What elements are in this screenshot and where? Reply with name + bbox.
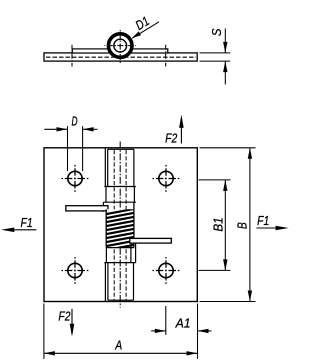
svg-text:A1: A1 bbox=[175, 316, 191, 330]
spring coil block bbox=[104, 202, 136, 250]
svg-text:B: B bbox=[236, 222, 250, 229]
hole centerline tick right bbox=[165, 45, 167, 67]
segment boundary bbox=[104, 262, 135, 264]
force F2 top bbox=[180, 118, 182, 144]
dimension B (plate height) bbox=[200, 148, 256, 302]
spring leg right (front view) bbox=[130, 238, 172, 243]
knuckle segment 6 (bottom) bbox=[105, 263, 133, 301]
knuckle: pin circle bbox=[114, 39, 127, 52]
leaf bar (plate thickness S) bbox=[44, 53, 197, 61]
hole top-right bbox=[153, 165, 180, 192]
knuckle center cross bbox=[105, 45, 137, 47]
svg-text:D1: D1 bbox=[133, 14, 152, 33]
svg-text:F1: F1 bbox=[21, 216, 33, 230]
hinge plate bbox=[44, 148, 197, 302]
hole centerline tick left bbox=[71, 45, 73, 67]
hole bottom-right bbox=[153, 257, 180, 284]
spring leg left (front view) bbox=[66, 206, 108, 211]
segment boundary bbox=[103, 201, 135, 203]
spring leg right (top view) bbox=[120, 49, 168, 53]
svg-text:F2: F2 bbox=[58, 309, 71, 323]
svg-text:F2: F2 bbox=[165, 132, 178, 146]
svg-text:S: S bbox=[209, 28, 224, 37]
segment boundary bbox=[104, 186, 136, 188]
pin hidden lines (dashed) bbox=[113, 150, 115, 301]
svg-text:A: A bbox=[114, 339, 122, 353]
force F1 right bbox=[257, 227, 282, 229]
knuckle: spring coil ring bbox=[107, 32, 134, 59]
spring leg left (top view) bbox=[72, 49, 120, 53]
hidden seam line in bar bbox=[46, 56, 196, 58]
force F1 left bbox=[11, 229, 36, 231]
dimension A (plate width) bbox=[44, 304, 197, 359]
svg-text:D: D bbox=[71, 115, 77, 129]
knuckle segment 2 bbox=[106, 187, 134, 203]
knuckle segment 1 (top) bbox=[105, 148, 134, 186]
svg-text:F1: F1 bbox=[257, 214, 269, 228]
left step bbox=[102, 202, 104, 212]
leader D1 bbox=[132, 22, 159, 38]
dimension B1 (hole spacing vertical) bbox=[199, 180, 231, 271]
knuckle segment 5 bbox=[106, 243, 135, 263]
force F2 bottom bbox=[71, 309, 73, 333]
dimension D (hole diameter) bbox=[44, 126, 97, 171]
dimension A1 (hole to edge) bbox=[151, 304, 211, 359]
knuckle centerline bbox=[119, 142, 121, 308]
hole top-left bbox=[62, 165, 89, 192]
dimension S bbox=[200, 52, 231, 54]
coil bottom boundary bbox=[106, 247, 134, 249]
hole bottom-left bbox=[62, 257, 89, 284]
svg-text:B1: B1 bbox=[211, 217, 226, 231]
